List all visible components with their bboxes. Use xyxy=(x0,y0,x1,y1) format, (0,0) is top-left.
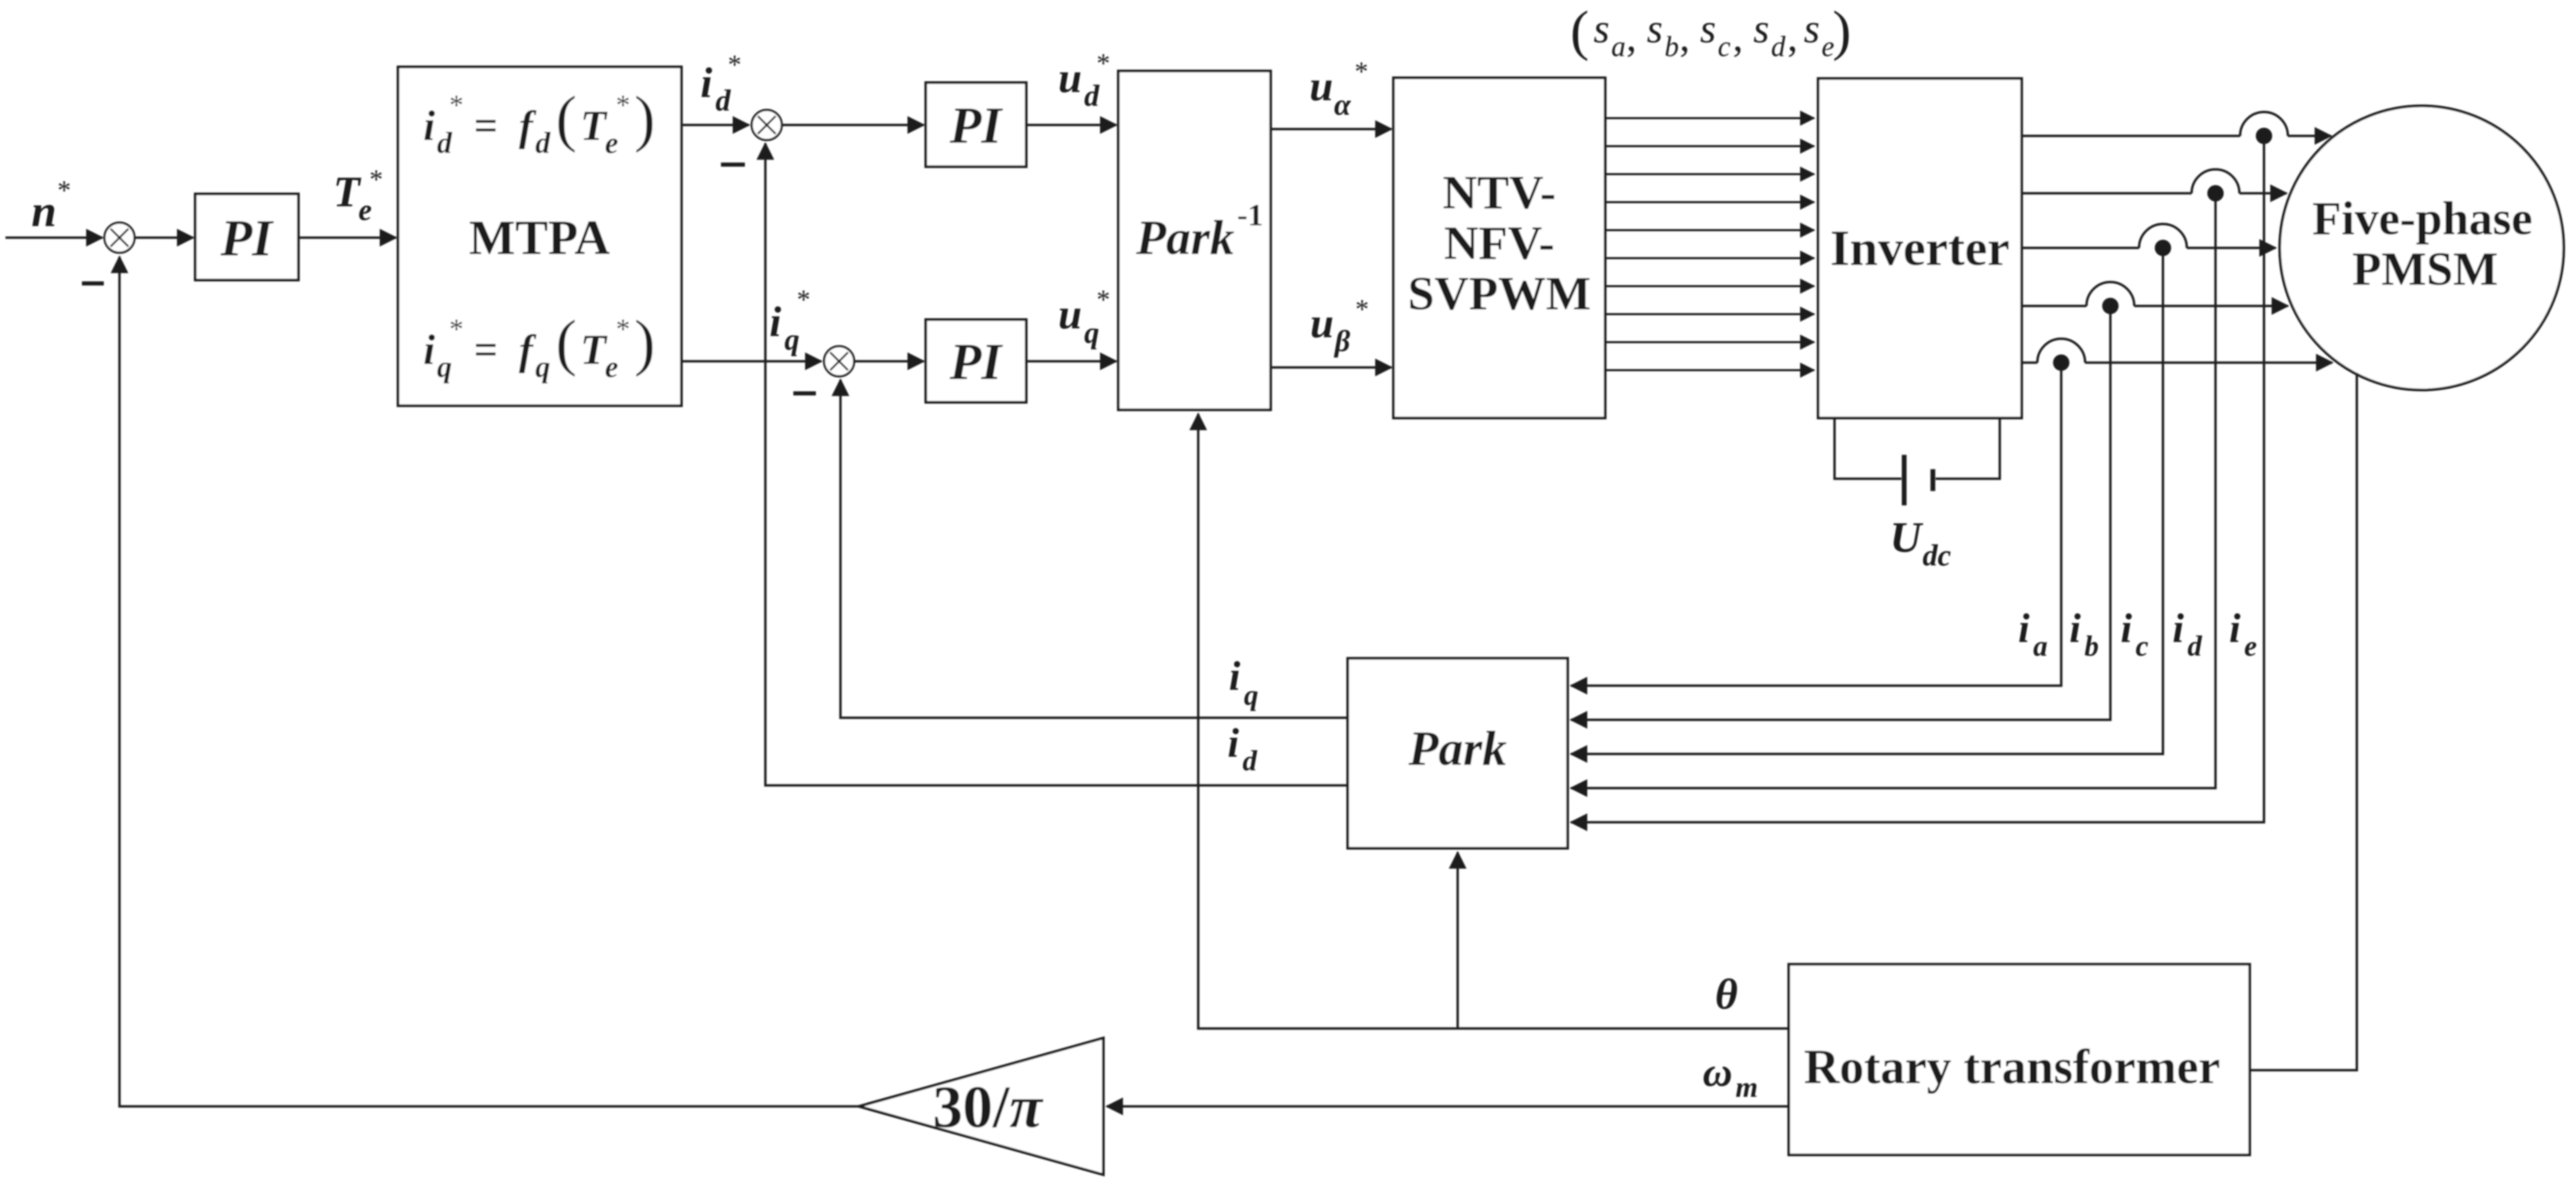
svg-text:e: e xyxy=(358,193,372,227)
svg-text:NFV-: NFV- xyxy=(1444,217,1555,270)
node label n* xyxy=(31,175,71,236)
svg-text:q: q xyxy=(1244,680,1258,712)
node label ualpha* xyxy=(1310,56,1368,122)
minus sign at S2 xyxy=(721,163,745,167)
svg-text:(: ( xyxy=(1570,0,1589,61)
PI controller U1 xyxy=(195,194,298,280)
svg-text:β: β xyxy=(1333,324,1350,358)
wire Park-1 to SVPWM ualpha* xyxy=(1271,128,1391,130)
svg-text:e: e xyxy=(605,126,619,160)
svg-text:m: m xyxy=(1736,1072,1758,1104)
svg-text:c: c xyxy=(2136,631,2149,662)
svg-text:a: a xyxy=(2033,631,2048,662)
svg-text:*: * xyxy=(616,90,630,122)
svg-text:q: q xyxy=(1084,316,1099,350)
feedback wire id to Park xyxy=(1571,306,2110,720)
PI controller U3 xyxy=(926,320,1026,402)
node label id* xyxy=(700,49,741,117)
svg-text:*: * xyxy=(57,175,71,206)
svg-text:T: T xyxy=(580,103,608,150)
svg-text:*: * xyxy=(797,284,810,315)
svg-text:α: α xyxy=(1334,88,1351,122)
node label iq* xyxy=(769,284,810,356)
svg-text:PI: PI xyxy=(949,333,1003,391)
wire Park-1 to SVPWM ubeta* xyxy=(1271,366,1391,369)
svg-text:d: d xyxy=(1084,79,1100,113)
inverse Park transform block xyxy=(1118,71,1271,410)
svg-text:d: d xyxy=(1243,746,1258,777)
phase wire d Inverter to PMSM xyxy=(2022,282,2288,306)
node label omega m xyxy=(1703,1050,1758,1104)
wire MTPA iq* output to S3 xyxy=(681,360,821,363)
MTPA block xyxy=(398,67,681,406)
wire S2 to PI2 xyxy=(782,124,924,126)
svg-text:): ) xyxy=(1832,0,1851,61)
svg-text:s: s xyxy=(1804,6,1820,51)
svg-text:b: b xyxy=(2084,631,2099,662)
feedback wire iq from Park to S3 xyxy=(840,380,1348,718)
svg-text:d: d xyxy=(2188,631,2203,662)
svg-text:=: = xyxy=(474,327,498,374)
svg-text:30/π: 30/π xyxy=(933,1074,1043,1141)
svg-text:Inverter: Inverter xyxy=(1830,221,2010,277)
svg-text:a: a xyxy=(1611,31,1626,63)
svg-text:(: ( xyxy=(556,307,577,377)
svg-text:s: s xyxy=(1647,6,1662,51)
NTV-NFV-SVPWM block xyxy=(1393,78,1605,418)
svg-text:i: i xyxy=(423,327,435,374)
svg-text:u: u xyxy=(1058,55,1081,102)
svg-text:*: * xyxy=(1096,284,1110,315)
current sensor dot on phase c xyxy=(2155,240,2171,256)
dc link wire left xyxy=(1835,418,1901,479)
svg-text:i: i xyxy=(1228,721,1239,766)
svg-text:PMSM: PMSM xyxy=(2352,243,2498,296)
equation id* = fd(Te*) xyxy=(423,83,655,160)
svg-text:NTV-: NTV- xyxy=(1443,167,1556,219)
phase wire c Inverter to PMSM xyxy=(2022,224,2276,248)
svg-text:ω: ω xyxy=(1703,1050,1732,1095)
feedback wire ia to Park xyxy=(1571,136,2264,822)
PI controller U2 xyxy=(926,83,1026,167)
svg-text:*: * xyxy=(728,49,741,80)
omega wire from Rotary transformer to gain xyxy=(1107,1105,1789,1108)
phase wire a Inverter to PMSM xyxy=(2022,112,2331,136)
svg-text:-1: -1 xyxy=(1237,197,1263,232)
svg-text:q: q xyxy=(535,350,550,384)
svg-text:d: d xyxy=(716,84,731,117)
svg-text:i: i xyxy=(2172,606,2184,651)
svg-text:,: , xyxy=(1733,14,1743,59)
summing junction S2 xyxy=(752,110,782,140)
current sensor dot on phase b xyxy=(2207,185,2224,201)
svg-text:i: i xyxy=(2069,606,2081,651)
svg-text:s: s xyxy=(1753,6,1769,51)
svg-text:i: i xyxy=(2018,606,2030,651)
node label ie xyxy=(2229,606,2257,662)
summing junction S3 xyxy=(824,346,854,376)
feedback wire id from Park to S2 xyxy=(765,143,1348,785)
svg-text:Rotary transformer: Rotary transformer xyxy=(1804,1039,2220,1094)
wire S3 to PI3 xyxy=(854,360,924,363)
svg-text:PI: PI xyxy=(949,97,1003,154)
svg-text:*: * xyxy=(1355,294,1369,324)
svg-text:*: * xyxy=(1096,48,1110,79)
svg-text:=: = xyxy=(474,103,498,150)
svg-text:,: , xyxy=(1680,14,1690,59)
svg-text:s: s xyxy=(1594,6,1609,51)
Inverter block xyxy=(1818,79,2022,418)
wire n* input xyxy=(5,236,102,239)
svg-text:T: T xyxy=(580,327,608,374)
svg-text:i: i xyxy=(700,60,712,107)
svg-text:*: * xyxy=(616,314,630,346)
node label id xyxy=(2172,606,2203,662)
battery long plate xyxy=(1902,455,1907,505)
svg-text:*: * xyxy=(449,314,464,346)
svg-text:i: i xyxy=(2229,606,2241,651)
svg-text:e: e xyxy=(605,350,619,384)
node label id xyxy=(1228,721,1258,777)
svg-text:u: u xyxy=(1310,300,1333,347)
Five-phase PMSM machine xyxy=(2280,106,2564,390)
svg-text:,: , xyxy=(1787,14,1798,59)
svg-text:d: d xyxy=(437,126,453,160)
Rotary transformer block xyxy=(1789,964,2250,1155)
svg-text:s: s xyxy=(1700,6,1716,51)
feedback wire ie to Park xyxy=(1571,363,2061,686)
current sensor dot on phase a xyxy=(2256,128,2272,144)
svg-text:dc: dc xyxy=(1923,539,1951,572)
svg-text:(: ( xyxy=(556,83,577,153)
svg-text:U: U xyxy=(1890,513,1923,561)
wire S1 to PI1 xyxy=(135,236,193,239)
svg-text:e: e xyxy=(2244,631,2257,662)
minus sign at S3 xyxy=(793,391,816,395)
gate signal wires SVPWM to Inverter xyxy=(1605,118,1814,370)
svg-text:*: * xyxy=(369,164,383,195)
node label ia xyxy=(2018,606,2048,662)
wire PI3 to Park-1 with label uq* xyxy=(1026,360,1116,363)
svg-text:q: q xyxy=(437,350,452,384)
node label ubeta* xyxy=(1310,294,1369,358)
svg-text:q: q xyxy=(784,323,799,356)
svg-text:d: d xyxy=(1771,31,1786,63)
node label ic xyxy=(2121,606,2149,662)
minus sign at S1 xyxy=(82,281,104,285)
svg-text:i: i xyxy=(1229,654,1241,699)
svg-text:*: * xyxy=(449,90,464,122)
svg-text:T: T xyxy=(333,167,362,216)
theta branch wire to Park xyxy=(1456,852,1459,1029)
summing junction S1 xyxy=(104,223,135,253)
svg-text:d: d xyxy=(535,126,551,160)
current sensor dot on phase d xyxy=(2102,298,2119,314)
svg-text:Five-phase: Five-phase xyxy=(2312,193,2533,245)
feedback wire ib to Park xyxy=(1571,193,2216,788)
svg-text:Park: Park xyxy=(1408,721,1507,776)
theta wire from Rotary transformer xyxy=(1198,414,1789,1029)
svg-text:n: n xyxy=(31,186,57,236)
svg-text:,: , xyxy=(1626,14,1637,59)
svg-text:i: i xyxy=(423,103,435,150)
wire PI1 to MTPA with label Te* xyxy=(298,236,396,239)
svg-text:θ: θ xyxy=(1715,970,1738,1018)
svg-text:i: i xyxy=(769,299,781,346)
battery short plate xyxy=(1931,469,1936,491)
node label ud* xyxy=(1058,48,1110,113)
svg-text:*: * xyxy=(1355,56,1368,87)
svg-text:b: b xyxy=(1665,31,1679,63)
feedback wire ic to Park xyxy=(1571,248,2163,754)
equation iq* = fq(Te*) xyxy=(423,307,655,384)
node label iq xyxy=(1229,654,1258,712)
wire PI2 to Park-1 with label ud* xyxy=(1026,124,1116,126)
svg-text:i: i xyxy=(2121,606,2132,651)
node label Udc xyxy=(1890,513,1951,572)
dc link wire right xyxy=(1936,418,2000,479)
node label ib xyxy=(2069,606,2099,662)
current sensor dot on phase e xyxy=(2053,354,2069,371)
svg-text:SVPWM: SVPWM xyxy=(1408,268,1591,320)
svg-text:u: u xyxy=(1310,64,1333,110)
gain block 30/pi xyxy=(859,1038,1103,1175)
node label uq* xyxy=(1058,284,1110,350)
node label Te* xyxy=(333,164,383,227)
svg-text:u: u xyxy=(1058,292,1081,338)
svg-text:): ) xyxy=(634,307,655,377)
Park transform block xyxy=(1348,658,1568,848)
wire Rotary transformer to PMSM xyxy=(2250,373,2357,1070)
svg-text:c: c xyxy=(1718,31,1731,63)
wire MTPA id* output to S2 xyxy=(681,124,749,126)
svg-text:MTPA: MTPA xyxy=(469,210,610,265)
node label (sa,sb,sc,sd,se) xyxy=(1570,0,1851,63)
svg-text:PI: PI xyxy=(220,210,274,267)
phase wire e Inverter to PMSM xyxy=(2022,339,2332,363)
svg-text:Park: Park xyxy=(1135,210,1234,265)
phase wire b Inverter to PMSM xyxy=(2022,169,2287,193)
speed feedback wire gain to S1 xyxy=(119,257,859,1106)
svg-text:): ) xyxy=(634,83,655,153)
